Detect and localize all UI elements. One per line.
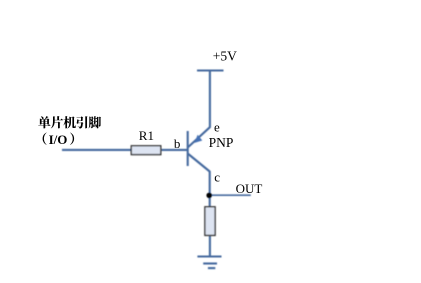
svg-text:PNP: PNP bbox=[209, 135, 234, 150]
wire: collector down to pulldown resistor bbox=[209, 171, 211, 208]
label: MCU pin text 单片机引脚 bbox=[38, 116, 101, 128]
svg-text:c: c bbox=[214, 170, 220, 185]
transistor Q1 PNP: collector diagonal bbox=[188, 154, 210, 172]
resistor R1 bbox=[131, 146, 161, 155]
svg-text:R1: R1 bbox=[139, 128, 154, 143]
svg-text:+5V: +5V bbox=[213, 48, 237, 63]
ground bbox=[197, 255, 221, 257]
resistor: pulldown to ground bbox=[205, 207, 215, 236]
transistor Q1 PNP: base bar bbox=[187, 131, 189, 166]
svg-text:b: b bbox=[174, 136, 181, 151]
svg-text:e: e bbox=[214, 119, 220, 134]
wire: MCU pin to R1 bbox=[62, 149, 132, 151]
wire: R1 to base bbox=[161, 149, 188, 151]
node: OUT junction dot bbox=[206, 193, 212, 199]
transistor Q1 PNP: emitter diagonal bbox=[188, 127, 210, 147]
wire: +5V rail to emitter bbox=[209, 71, 211, 128]
power rail bar bbox=[197, 69, 224, 71]
svg-text:I/O: I/O bbox=[49, 132, 68, 147]
svg-text:OUT: OUT bbox=[236, 181, 263, 196]
wire: resistor to ground bbox=[209, 235, 211, 256]
wire: node to OUT bbox=[210, 194, 251, 196]
transistor Q1 PNP: emitter arrowhead bbox=[195, 135, 203, 143]
label: MCU pin text （I/O） bbox=[43, 132, 74, 147]
